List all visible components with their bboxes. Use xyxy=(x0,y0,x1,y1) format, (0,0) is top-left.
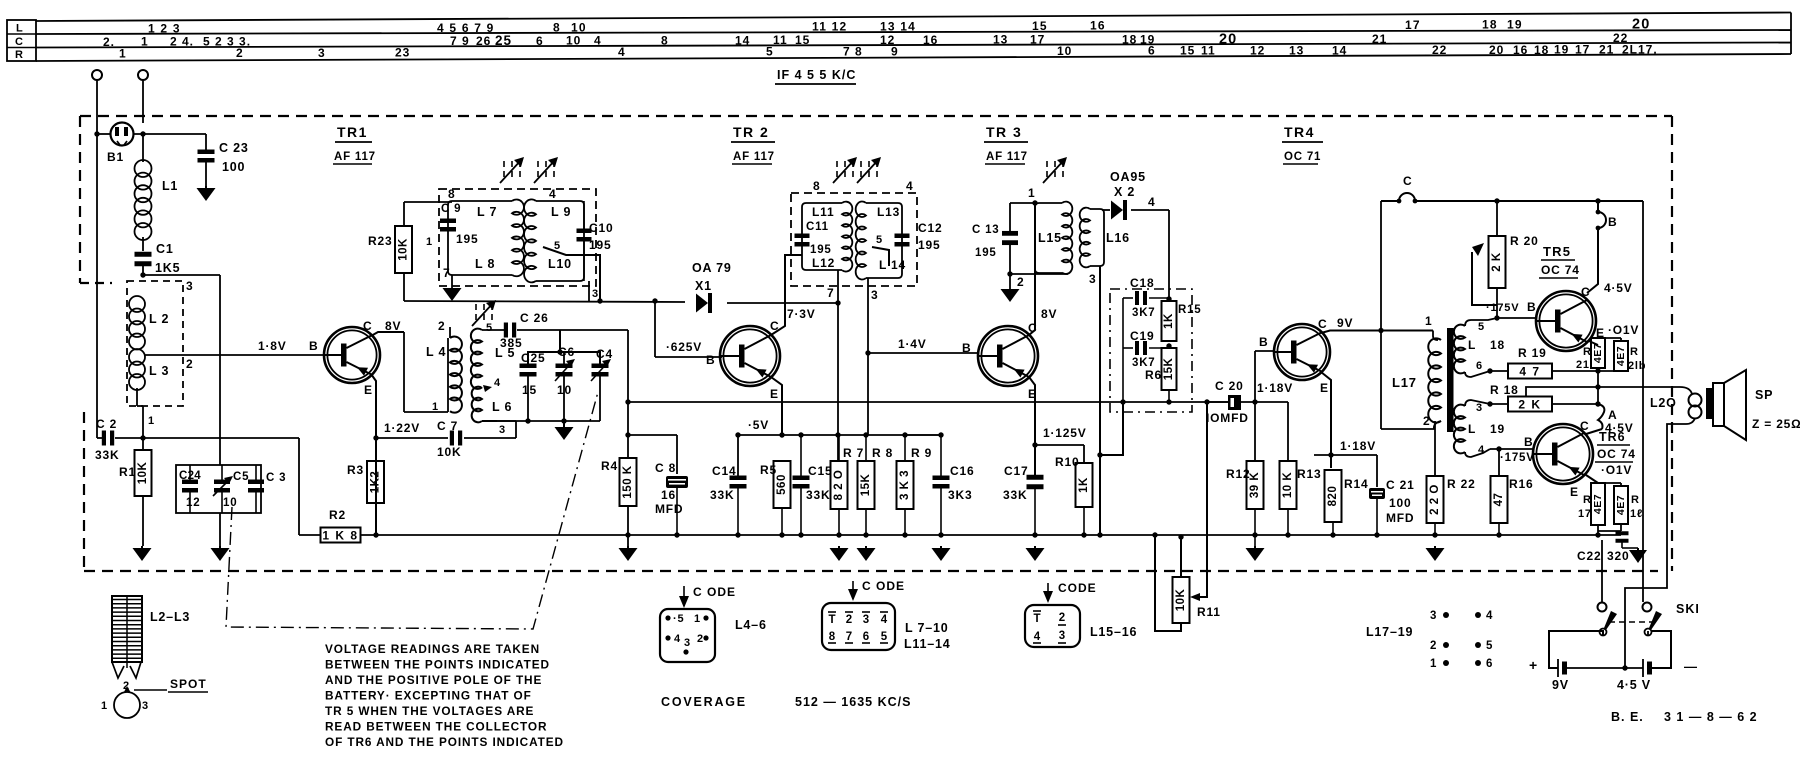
resistor R4 xyxy=(620,458,637,506)
svg-text:OC 74: OC 74 xyxy=(1541,263,1580,277)
svg-text:195: 195 xyxy=(810,244,832,256)
svg-text:2.: 2. xyxy=(103,35,115,49)
svg-text:7: 7 xyxy=(827,286,834,300)
wire B test drop xyxy=(1597,201,1599,212)
svg-text:5 2 3 3.: 5 2 3 3. xyxy=(203,35,251,49)
svg-text:15: 15 xyxy=(1180,44,1195,58)
capacitor C13 xyxy=(1002,231,1018,236)
svg-text:19: 19 xyxy=(1507,17,1523,31)
resistor R21 xyxy=(1591,338,1605,368)
wire L6 bottom xyxy=(482,420,497,422)
svg-text:195: 195 xyxy=(918,238,940,252)
svg-text:READ BETWEEN THE COLLECT: READ BETWEEN THE COLLECTOR xyxy=(325,720,547,734)
junction xyxy=(1494,198,1499,203)
svg-text:L 2: L 2 xyxy=(149,312,169,326)
svg-text:L12: L12 xyxy=(812,256,835,270)
wire L12 AGC drop xyxy=(837,303,839,461)
svg-text:R2: R2 xyxy=(329,508,346,522)
svg-text:B: B xyxy=(1527,300,1536,314)
switch SK1 link xyxy=(1609,621,1654,623)
svg-text:3: 3 xyxy=(186,279,193,293)
svg-text:R14: R14 xyxy=(1344,477,1368,491)
wire AGC return xyxy=(1100,402,1123,455)
wire R13 drop xyxy=(1287,402,1289,461)
switch SK1 contact lower xyxy=(1643,603,1652,612)
svg-text:SKI: SKI xyxy=(1676,602,1700,616)
svg-text:L 4: L 4 xyxy=(426,345,446,359)
svg-text:R 18: R 18 xyxy=(1490,383,1519,397)
svg-text:10: 10 xyxy=(557,383,572,397)
junction xyxy=(557,349,562,354)
svg-text:4: 4 xyxy=(549,187,556,201)
svg-text:4: 4 xyxy=(618,45,626,59)
svg-text:B1: B1 xyxy=(107,150,124,164)
svg-text:R 19: R 19 xyxy=(1518,346,1547,360)
trimmer xyxy=(1046,161,1048,167)
svg-text:4: 4 xyxy=(881,614,888,626)
wire TR2 emitter xyxy=(771,377,782,435)
svg-text:R: R xyxy=(15,49,23,61)
svg-text:B: B xyxy=(1524,435,1533,449)
svg-text:C1: C1 xyxy=(156,242,174,256)
svg-text:47: 47 xyxy=(1493,493,1505,507)
capacitor C22 xyxy=(1616,531,1629,535)
wire pin7 ground xyxy=(451,275,453,288)
svg-text:C 2: C 2 xyxy=(96,417,117,431)
wire TR5 emitter xyxy=(1589,341,1598,345)
svg-text:11: 11 xyxy=(773,33,788,47)
svg-text:·5: ·5 xyxy=(673,613,684,625)
junction xyxy=(1007,271,1012,276)
svg-text:·5V: ·5V xyxy=(748,418,769,432)
svg-text:L2–L3: L2–L3 xyxy=(150,610,190,624)
capacitor C1 xyxy=(135,252,152,257)
svg-text:100: 100 xyxy=(1389,496,1411,510)
capacitor C10 xyxy=(577,229,592,234)
wire TR6 collector xyxy=(1586,429,1602,434)
svg-text:E: E xyxy=(1320,381,1329,395)
svg-text:1: 1 xyxy=(426,236,433,248)
wire R6 bottom xyxy=(1168,390,1170,402)
svg-text:B: B xyxy=(706,353,715,367)
svg-text:5: 5 xyxy=(881,631,888,643)
svg-text:R: R xyxy=(1583,346,1592,358)
test point A hump xyxy=(1598,404,1604,429)
switch SK1 contact upper xyxy=(1598,603,1607,612)
svg-text:R23: R23 xyxy=(368,234,392,248)
wire battery loop right xyxy=(1652,631,1671,668)
svg-text:9V: 9V xyxy=(1552,678,1569,692)
svg-text:13: 13 xyxy=(1289,43,1304,57)
svg-text:BETWEEN THE POINTS INDICAT: BETWEEN THE POINTS INDICATED xyxy=(325,658,550,672)
svg-text:9: 9 xyxy=(891,44,899,58)
junction xyxy=(1378,328,1383,333)
svg-text:21: 21 xyxy=(1576,359,1590,371)
wire R21 pair top xyxy=(1598,337,1621,339)
capacitor C5 variable xyxy=(214,480,230,485)
capacitor C16 xyxy=(940,435,942,476)
svg-text:L 7: L 7 xyxy=(477,205,497,219)
svg-text:1: 1 xyxy=(432,401,439,413)
wire L18 R19 xyxy=(1490,370,1508,372)
wire HT drop to switch xyxy=(1642,201,1644,602)
svg-text:320: 320 xyxy=(1607,549,1629,563)
resistor R18 xyxy=(1508,397,1552,412)
wire 1.4V base xyxy=(868,352,978,354)
svg-text:10K: 10K xyxy=(437,445,461,459)
svg-text:BATTERY· EXCEPTING THAT: BATTERY· EXCEPTING THAT OF xyxy=(325,689,532,703)
svg-text:4 5 6 7 9: 4 5 6 7 9 xyxy=(437,21,495,35)
svg-text:10: 10 xyxy=(566,34,581,48)
capacitor C7 xyxy=(450,431,454,446)
coil code L7-10 L11-14 xyxy=(822,603,895,650)
wire emitter rail xyxy=(738,434,939,436)
svg-text:10K: 10K xyxy=(398,238,410,261)
svg-text:C22: C22 xyxy=(1577,549,1601,563)
ferrite rod L2-L3 pictorial xyxy=(112,596,142,662)
svg-text:4·5V: 4·5V xyxy=(1604,281,1633,295)
svg-text:·625V: ·625V xyxy=(666,340,702,354)
svg-text:AF 117: AF 117 xyxy=(334,151,376,163)
ground xyxy=(940,546,942,548)
svg-text:R10: R10 xyxy=(1055,455,1079,469)
resistor R22 xyxy=(1427,476,1444,523)
svg-text:7·3V: 7·3V xyxy=(787,307,816,321)
wire gang bus xyxy=(298,438,300,535)
trimmer xyxy=(537,161,539,167)
junction xyxy=(938,432,943,437)
svg-text:150 K: 150 K xyxy=(622,465,634,498)
switch SK1 lever a xyxy=(1604,611,1617,630)
resistor R23 xyxy=(395,226,412,273)
capacitor C8 electrolytic xyxy=(666,476,688,488)
svg-text:5: 5 xyxy=(1486,640,1493,652)
svg-text:R6: R6 xyxy=(1145,368,1162,382)
wire main earth bus xyxy=(360,534,1621,536)
svg-text:3 K 3: 3 K 3 xyxy=(899,470,911,500)
wire R17 pair bottom xyxy=(1597,525,1599,535)
svg-text:R 9: R 9 xyxy=(911,446,932,460)
svg-text:16: 16 xyxy=(661,488,676,502)
svg-text:L16: L16 xyxy=(1106,231,1130,245)
ground xyxy=(627,546,629,548)
junction xyxy=(865,350,870,355)
wire TR4 emitter xyxy=(1321,372,1331,468)
spot terminal circle xyxy=(114,692,140,718)
svg-text:4E7: 4E7 xyxy=(1615,346,1627,366)
svg-text:·175V: ·175V xyxy=(1486,302,1519,314)
capacitor C26 xyxy=(504,323,508,338)
svg-text:OF TR6 AND THE POINTS IND: OF TR6 AND THE POINTS INDICATED xyxy=(325,735,564,749)
battery 4.5V xyxy=(1642,659,1644,677)
svg-text:33K: 33K xyxy=(710,488,734,502)
wire C20 right xyxy=(1241,401,1288,403)
junction xyxy=(94,131,99,136)
trimmer xyxy=(475,304,477,310)
junction xyxy=(625,532,630,537)
svg-text:16: 16 xyxy=(1090,19,1106,33)
svg-text:10: 10 xyxy=(1057,44,1072,58)
svg-text:4: 4 xyxy=(1478,444,1485,456)
svg-text:6: 6 xyxy=(536,34,544,48)
junction xyxy=(140,435,145,440)
svg-text:4E7: 4E7 xyxy=(1592,494,1604,514)
svg-text:1: 1 xyxy=(141,35,149,49)
svg-text:22: 22 xyxy=(1432,43,1447,57)
capacitor C19 xyxy=(1123,347,1133,349)
ground xyxy=(1434,546,1436,548)
svg-text:8: 8 xyxy=(829,631,836,643)
pin 7 wire xyxy=(837,270,839,303)
svg-text:2: 2 xyxy=(1430,640,1437,652)
svg-text:E: E xyxy=(770,387,779,401)
diode X1 OA79 xyxy=(696,294,708,313)
wire R9 C16 link xyxy=(905,434,941,436)
winding frame L13 L14 xyxy=(866,203,902,278)
svg-text:2 4.: 2 4. xyxy=(170,35,194,49)
svg-text:C ODE: C ODE xyxy=(862,579,905,593)
svg-text:C11: C11 xyxy=(806,221,829,233)
svg-text:15K: 15K xyxy=(860,474,872,497)
svg-text:19: 19 xyxy=(1554,43,1569,57)
svg-text:3: 3 xyxy=(1430,610,1437,622)
svg-text:C 9: C 9 xyxy=(441,203,461,215)
svg-text:R 8: R 8 xyxy=(872,446,893,460)
resistor R19 xyxy=(1508,364,1552,379)
junction xyxy=(1595,401,1600,406)
svg-text:20: 20 xyxy=(1489,43,1504,57)
svg-text:E: E xyxy=(1570,485,1579,499)
junction xyxy=(1487,368,1492,373)
trimmer xyxy=(860,161,862,167)
svg-text:R12: R12 xyxy=(1226,467,1250,481)
trimmer xyxy=(503,161,505,167)
svg-text:18: 18 xyxy=(1482,18,1498,32)
coil code L15-16 xyxy=(1025,605,1080,647)
trimmer xyxy=(836,161,838,167)
svg-text:MFD: MFD xyxy=(655,502,683,516)
winding frame L16 xyxy=(1090,209,1104,266)
svg-text:8: 8 xyxy=(553,20,561,34)
ground xyxy=(563,421,565,427)
core lamination xyxy=(1447,328,1454,432)
svg-text:10 K: 10 K xyxy=(1282,472,1294,498)
svg-text:IF 4 5 5 K/C: IF 4 5 5 K/C xyxy=(777,68,856,82)
junction xyxy=(1032,442,1037,447)
svg-text:17: 17 xyxy=(1030,33,1045,47)
svg-text:5: 5 xyxy=(1478,321,1485,333)
capacitor C14 xyxy=(730,476,747,481)
speaker SP xyxy=(1713,383,1724,426)
svg-text:C5: C5 xyxy=(233,471,249,483)
svg-text:4·5 V: 4·5 V xyxy=(1617,678,1651,692)
code arrow xyxy=(852,581,854,599)
wire C13 ground xyxy=(1010,273,1068,275)
svg-text:T: T xyxy=(828,614,835,626)
svg-text:R 7: R 7 xyxy=(843,446,864,460)
svg-text:4 7: 4 7 xyxy=(1519,365,1540,379)
svg-text:15: 15 xyxy=(522,383,537,397)
capacitor C18 xyxy=(1123,297,1133,299)
junction xyxy=(1496,446,1501,451)
junction xyxy=(1595,368,1600,373)
resistor R8 xyxy=(865,435,867,461)
svg-text:C: C xyxy=(363,319,372,333)
winding frame L15 xyxy=(1035,203,1062,273)
svg-text:8 2 O: 8 2 O xyxy=(833,470,845,501)
winding frame L9 L10 xyxy=(536,201,584,281)
wire supply riser xyxy=(1380,201,1382,429)
wire R11 loop xyxy=(1180,537,1182,577)
capacitor C20 electrolytic xyxy=(1228,395,1241,410)
svg-text:R11: R11 xyxy=(1197,605,1221,619)
svg-text:1: 1 xyxy=(1425,314,1432,328)
svg-text:R 22: R 22 xyxy=(1447,477,1476,491)
svg-text:2: 2 xyxy=(123,680,130,692)
resistor R11 volume xyxy=(1173,577,1190,623)
svg-text:3 1 — 8 — 6 2: 3 1 — 8 — 6 2 xyxy=(1664,710,1758,724)
junction xyxy=(1166,399,1171,404)
main dashed enclosure bottom edge xyxy=(84,570,1658,572)
svg-text:6: 6 xyxy=(1476,360,1483,372)
junction xyxy=(1487,401,1492,406)
svg-text:TR1: TR1 xyxy=(337,124,368,140)
transistor TR1 xyxy=(324,327,380,383)
svg-text:560: 560 xyxy=(776,474,788,495)
coil L1 xyxy=(142,134,144,162)
wire R17 pair top xyxy=(1598,482,1621,484)
dial scale frame xyxy=(7,20,36,61)
coil L3 xyxy=(129,349,145,365)
pot wiper R20 xyxy=(1472,252,1497,305)
svg-text:17: 17 xyxy=(1575,43,1590,57)
svg-text:11 12: 11 12 xyxy=(812,20,847,34)
svg-text:8: 8 xyxy=(661,34,669,48)
svg-text:L13: L13 xyxy=(877,205,900,219)
ground xyxy=(205,186,207,188)
svg-text:2: 2 xyxy=(697,633,704,645)
svg-text:4·5V: 4·5V xyxy=(1605,421,1634,435)
svg-text:C10: C10 xyxy=(589,221,613,235)
junction xyxy=(735,432,740,437)
svg-text:1: 1 xyxy=(694,613,701,625)
svg-text:3: 3 xyxy=(142,700,149,712)
capacitor C21 electrolytic xyxy=(1369,488,1385,499)
coil L19 xyxy=(1454,405,1465,454)
wire detector line right xyxy=(727,302,838,304)
svg-text:L17: L17 xyxy=(1392,375,1417,390)
test point C hump xyxy=(1399,193,1415,201)
svg-text:VOLTAGE READINGS ARE TAKEN: VOLTAGE READINGS ARE TAKEN xyxy=(325,642,540,656)
svg-text:C18: C18 xyxy=(1130,276,1154,290)
junction xyxy=(1432,532,1437,537)
resistor R13 xyxy=(1280,461,1297,509)
svg-text:1: 1 xyxy=(101,700,108,712)
wire C13 top xyxy=(1010,202,1035,204)
svg-text:10: 10 xyxy=(571,20,587,34)
svg-text:B: B xyxy=(1608,215,1617,229)
svg-text:2 2 O: 2 2 O xyxy=(1429,484,1441,515)
svg-text:12: 12 xyxy=(1250,43,1265,57)
resistor R17b xyxy=(1614,486,1628,524)
wire C14 drop xyxy=(737,435,739,476)
svg-text:AF 117: AF 117 xyxy=(986,151,1028,163)
svg-text:C 20: C 20 xyxy=(1215,379,1244,393)
label SPOT xyxy=(134,689,167,691)
svg-text:820: 820 xyxy=(1327,486,1339,507)
capacitor C6 variable xyxy=(556,364,573,369)
wire B1 row xyxy=(97,133,110,135)
svg-text:512 — 1635 KC/S: 512 — 1635 KC/S xyxy=(795,695,911,709)
svg-text:3: 3 xyxy=(684,637,691,649)
svg-text:R16: R16 xyxy=(1509,477,1533,491)
pin 3 wire xyxy=(588,281,590,301)
svg-text:4: 4 xyxy=(1148,195,1155,209)
svg-text:1: 1 xyxy=(1028,186,1035,200)
dial scale lines xyxy=(36,13,1791,22)
wire TR5 collector xyxy=(1587,228,1598,293)
transistor TR6 xyxy=(1533,424,1593,484)
wire TR6 base xyxy=(1490,448,1533,450)
wire speaker return xyxy=(1625,418,1695,668)
capacitor C4 variable xyxy=(592,364,609,369)
svg-text:L 6: L 6 xyxy=(492,400,512,414)
svg-text:15K: 15K xyxy=(1163,358,1175,381)
svg-text:3: 3 xyxy=(592,288,599,300)
tuning gang box xyxy=(176,465,261,513)
resistor R10 xyxy=(1076,463,1093,507)
svg-text:R4: R4 xyxy=(601,459,618,473)
svg-text:C: C xyxy=(1318,317,1327,331)
coil L17 xyxy=(1433,331,1438,341)
capacitor C12 xyxy=(895,234,910,239)
resistor R21b xyxy=(1614,341,1628,371)
capacitor C2 xyxy=(97,437,103,439)
svg-text:3: 3 xyxy=(1089,272,1096,286)
junction xyxy=(1166,343,1171,348)
svg-text:L1: L1 xyxy=(162,179,178,193)
resistor R20 xyxy=(1489,236,1506,288)
junction xyxy=(140,131,145,136)
svg-text:TR 5 WHEN THE VOLTAGES A: TR 5 WHEN THE VOLTAGES ARE xyxy=(325,704,534,718)
junction xyxy=(1097,452,1102,457)
svg-text:L15: L15 xyxy=(1038,231,1062,245)
wire TR5 base xyxy=(1497,317,1536,319)
junction xyxy=(373,532,378,537)
diode X2 OA95 xyxy=(1102,209,1110,211)
gang dash-dot link xyxy=(226,392,598,629)
wire TR1 emitter xyxy=(371,374,376,535)
wire R4 node xyxy=(627,401,629,403)
wire TR2 base drop xyxy=(654,301,656,357)
junction xyxy=(652,298,657,303)
ground xyxy=(219,546,221,548)
node 1K5 junction xyxy=(140,272,145,277)
svg-text:3K3: 3K3 xyxy=(948,488,972,502)
svg-text:L 7–10: L 7–10 xyxy=(905,621,949,635)
pin 3 wire xyxy=(1099,266,1101,535)
svg-text:C24: C24 xyxy=(179,470,201,482)
IF transformer T2 dashed box xyxy=(791,193,917,286)
wire TR1 collector xyxy=(371,332,404,336)
svg-text:C: C xyxy=(1403,174,1412,188)
svg-text:6: 6 xyxy=(1148,44,1156,58)
svg-text:C: C xyxy=(1581,285,1590,299)
svg-text:15: 15 xyxy=(795,33,810,47)
resistor R5 xyxy=(774,461,791,508)
svg-text:MFD: MFD xyxy=(1386,511,1414,525)
svg-text:39 K: 39 K xyxy=(1249,472,1261,498)
